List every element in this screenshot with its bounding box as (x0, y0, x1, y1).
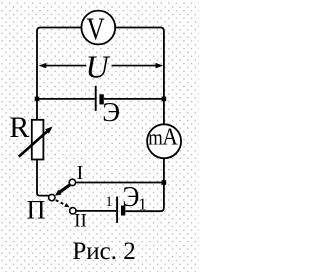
svg-text:1: 1 (105, 194, 112, 210)
svg-text:R: R (9, 111, 29, 144)
svg-text:1: 1 (138, 194, 147, 213)
svg-text:U: U (85, 48, 110, 84)
svg-text:V: V (87, 13, 106, 47)
svg-text:A: A (162, 123, 178, 150)
svg-text:Рис. 2: Рис. 2 (72, 238, 135, 265)
svg-text:Э: Э (122, 181, 139, 212)
svg-text:I: I (77, 162, 84, 184)
svg-text:П: П (27, 196, 46, 225)
svg-text:m: m (148, 126, 163, 150)
svg-text:Э: Э (102, 97, 120, 127)
svg-text:II: II (74, 210, 87, 231)
